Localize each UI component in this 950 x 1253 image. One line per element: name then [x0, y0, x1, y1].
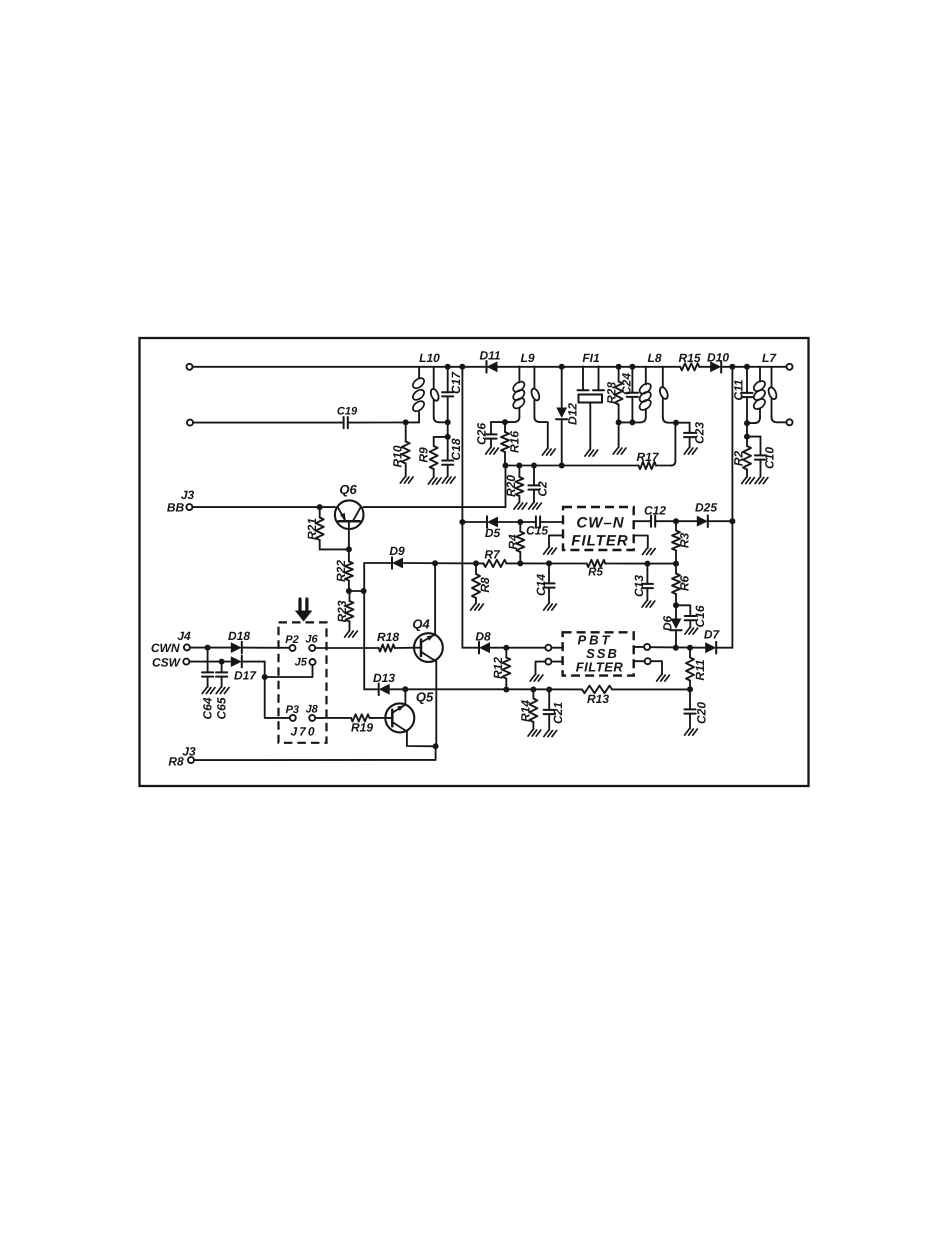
- resistor R10: [391, 422, 410, 476]
- svg-text:C64: C64: [200, 697, 214, 719]
- svg-text:R22: R22: [334, 560, 348, 582]
- svg-text:J8: J8: [306, 704, 319, 716]
- node L8 secondary bottom: [673, 420, 679, 426]
- diode D6: [661, 605, 682, 648]
- svg-text:R18: R18: [377, 630, 399, 644]
- resistor R15: [678, 351, 700, 370]
- resistor R23: [335, 591, 354, 631]
- node C11 top: [744, 364, 750, 370]
- node R22 bottom: [346, 588, 352, 594]
- wire second input: [193, 422, 342, 424]
- node R16 bottom: [503, 463, 509, 469]
- resistor R3: [672, 521, 692, 563]
- wire D5 line: [462, 521, 533, 523]
- diode D25: [695, 501, 717, 528]
- svg-text:R28: R28: [605, 382, 619, 404]
- wire J6 to R18: [315, 647, 379, 649]
- filter box PBT SSB: [563, 632, 634, 675]
- node R3 bottom: [673, 561, 679, 567]
- svg-text:L10: L10: [419, 351, 440, 365]
- wire R17 line: [506, 423, 676, 466]
- capacitor C13: [632, 564, 653, 601]
- output terminal top-right: [787, 364, 793, 370]
- wire Q4 emitter down: [435, 662, 437, 747]
- svg-text:R14: R14: [519, 700, 533, 722]
- transistor Q6: [335, 482, 364, 529]
- capacitor C18: [442, 437, 463, 477]
- svg-text:R9: R9: [417, 447, 431, 463]
- wire Q4 collector vertical: [434, 563, 436, 634]
- wire CWN line: [190, 647, 290, 649]
- node C24 bottom: [619, 419, 636, 425]
- node R6 bottom: [673, 602, 679, 608]
- ground C26: [486, 448, 499, 454]
- svg-text:D5: D5: [485, 526, 501, 540]
- pin P3: [286, 704, 299, 721]
- filter box CW-N: [563, 507, 634, 550]
- capacitor C65: [214, 662, 228, 720]
- svg-text:C19: C19: [337, 406, 358, 418]
- pin J6: [305, 634, 318, 652]
- svg-text:R3: R3: [678, 533, 692, 549]
- resistor R6: [672, 564, 692, 606]
- capacitor C19: [337, 406, 358, 429]
- svg-text:C14: C14: [534, 574, 548, 596]
- ground R14: [528, 730, 541, 736]
- node R21 top: [317, 504, 323, 510]
- resistor R18: [377, 630, 414, 652]
- diode D5: [485, 516, 501, 540]
- capacitor C12: [644, 504, 676, 527]
- node D10 out: [729, 364, 735, 370]
- svg-text:C11: C11: [732, 379, 746, 400]
- ground R20: [514, 503, 527, 509]
- pin PBT out upper: [644, 644, 705, 650]
- wire R22 to vertical link: [349, 588, 367, 594]
- node R10 junction: [403, 419, 409, 425]
- wire C12 to D25: [676, 520, 732, 522]
- node R28 bottom: [616, 419, 622, 447]
- svg-text:BB: BB: [167, 501, 185, 515]
- inductor L8 primary: [632, 351, 661, 422]
- pointer arrow: [295, 599, 313, 622]
- svg-text:R16: R16: [508, 431, 522, 453]
- svg-text:CWN: CWN: [151, 641, 180, 655]
- diode D9: [389, 544, 405, 569]
- capacitor C16: [676, 605, 707, 627]
- terminal J3 R8: [168, 745, 196, 769]
- ground C21: [544, 731, 557, 737]
- wire J3 R8 line: [194, 746, 436, 760]
- svg-text:C23: C23: [693, 422, 707, 444]
- input terminal top-left: [187, 364, 193, 370]
- diode D11: [479, 349, 500, 373]
- resistor R9: [417, 437, 448, 478]
- diode D10: [707, 351, 729, 373]
- inductor L10 primary: [411, 351, 440, 422]
- svg-text:Q5: Q5: [416, 690, 434, 705]
- input terminal 2 left: [187, 420, 193, 426]
- wire D13 line: [364, 688, 690, 690]
- resistor R11: [686, 648, 707, 690]
- diode D13: [373, 671, 395, 695]
- node R12 top: [503, 645, 509, 651]
- wire D9 line: [364, 562, 476, 564]
- svg-text:L9: L9: [520, 351, 534, 365]
- pin J8: [306, 704, 319, 721]
- wire CW-N lower-left stub: [549, 535, 563, 547]
- svg-text:P3: P3: [286, 704, 299, 716]
- pin PBT in lower: [545, 659, 563, 665]
- capacitor C26: [475, 422, 506, 447]
- node R12 bottom: [503, 687, 509, 693]
- svg-text:J3: J3: [182, 745, 196, 759]
- ground C18: [442, 477, 455, 483]
- node C14 top: [546, 560, 552, 566]
- ground CW-N lower-right: [642, 549, 655, 555]
- wire Q5 collector: [404, 689, 406, 704]
- svg-text:C26: C26: [475, 423, 489, 445]
- relay box J70: [279, 622, 327, 742]
- node R4 bottom: [517, 560, 523, 566]
- inductor L9 secondary: [530, 366, 548, 448]
- svg-text:R10: R10: [391, 445, 405, 467]
- svg-text:R12: R12: [491, 657, 505, 679]
- ground C65: [216, 688, 229, 694]
- inductor L7 secondary: [767, 367, 786, 423]
- wire CW-N lower-right stub: [634, 536, 648, 549]
- pin P2: [285, 634, 298, 651]
- ground C2: [529, 503, 542, 509]
- svg-text:D13: D13: [373, 671, 395, 685]
- svg-text:D18: D18: [228, 629, 250, 643]
- svg-text:CW–N: CW–N: [576, 515, 624, 532]
- node D12 top: [559, 364, 565, 370]
- transistor Q4: [412, 617, 442, 662]
- svg-text:C16: C16: [693, 605, 707, 627]
- node C13 top: [644, 561, 650, 567]
- svg-text:C2: C2: [536, 481, 550, 497]
- node R11 bottom: [687, 686, 693, 692]
- wire Q5 emitter: [407, 732, 436, 747]
- wire BB line: [192, 506, 335, 508]
- capacitor C10: [747, 437, 777, 477]
- svg-text:Q4: Q4: [412, 617, 430, 632]
- svg-text:R8: R8: [168, 755, 184, 769]
- svg-text:R4: R4: [506, 534, 520, 550]
- node R8 top: [473, 560, 479, 566]
- capacitor C23: [676, 422, 707, 448]
- node Q5 collector junction: [402, 686, 408, 692]
- pin J5: [295, 657, 316, 669]
- svg-text:C15: C15: [526, 524, 548, 538]
- svg-text:J70: J70: [290, 725, 316, 739]
- resistor R14: [519, 690, 538, 730]
- terminal J4 CWN: [151, 629, 191, 655]
- node C12 out: [673, 518, 679, 524]
- terminal J3 BB: [167, 488, 195, 515]
- capacitor C2: [528, 466, 549, 503]
- svg-text:C10: C10: [763, 447, 777, 469]
- svg-text:R15: R15: [678, 351, 700, 365]
- wire J5 to junction: [265, 665, 313, 677]
- capacitor C11: [732, 367, 753, 423]
- ground C16: [685, 628, 698, 634]
- svg-text:R23: R23: [335, 600, 349, 622]
- ground C10: [755, 478, 768, 484]
- wire D8 line: [462, 647, 545, 649]
- capacitor C14: [534, 563, 555, 603]
- node R21 base junction: [346, 546, 352, 552]
- svg-text:C18: C18: [449, 438, 463, 460]
- svg-text:R2: R2: [732, 451, 746, 467]
- capacitor C15: [526, 516, 563, 537]
- svg-text:C17: C17: [449, 371, 463, 394]
- resistor R17: [636, 450, 659, 469]
- wire C19 to L10: [350, 421, 419, 423]
- transistor Q5: [385, 690, 434, 733]
- crystal filter FI1: [578, 351, 605, 450]
- resistor R28: [605, 367, 623, 423]
- svg-text:C12: C12: [644, 504, 666, 518]
- resistor R8: [472, 563, 492, 603]
- ground FI1: [585, 450, 598, 456]
- svg-text:FI1: FI1: [582, 351, 600, 365]
- svg-text:R5: R5: [588, 567, 603, 579]
- resistor R2: [732, 437, 752, 477]
- node D12 bottom: [559, 463, 565, 469]
- wire vertical link D9-D13: [363, 563, 365, 689]
- capacitor C17: [442, 364, 463, 423]
- diode D8: [475, 630, 491, 654]
- ground PBT lower-right: [657, 675, 670, 681]
- terminal J4 CSW: [152, 656, 189, 670]
- svg-text:D12: D12: [566, 403, 580, 425]
- ground R9: [428, 478, 441, 484]
- node L9 primary bottom: [502, 419, 508, 425]
- wire R21 to base: [320, 548, 349, 550]
- wire R16-node to Q6 collector: [364, 466, 506, 508]
- svg-text:D8: D8: [475, 630, 491, 644]
- border frame: [140, 338, 809, 786]
- ground CW-N lower-left: [544, 548, 557, 554]
- diode D17: [231, 656, 258, 683]
- ground C13: [642, 601, 655, 607]
- svg-text:C21: C21: [551, 702, 565, 724]
- ground R23: [345, 631, 358, 637]
- diode D12: [556, 367, 579, 466]
- svg-text:R17: R17: [636, 450, 659, 464]
- node R4 top: [517, 519, 523, 525]
- capacitor C20: [684, 689, 708, 728]
- svg-text:FILTER: FILTER: [571, 533, 628, 550]
- wire R5 segment: [520, 562, 586, 564]
- ground C23: [684, 448, 697, 454]
- svg-text:R13: R13: [587, 692, 609, 706]
- node D6 bottom: [673, 645, 679, 651]
- capacitor C21: [544, 690, 565, 731]
- svg-text:R19: R19: [351, 721, 373, 735]
- ground PBT lower-left: [530, 675, 543, 681]
- node C11 bottom: [744, 420, 750, 440]
- svg-text:Q6: Q6: [339, 482, 357, 497]
- node D25 out: [729, 518, 735, 524]
- wire vertical bus: [461, 367, 463, 648]
- resistor R21: [305, 507, 324, 549]
- svg-text:C20: C20: [695, 702, 709, 724]
- diode D18: [228, 629, 250, 653]
- ground R8: [471, 604, 484, 610]
- wire PBT lower-left stub: [536, 662, 546, 675]
- wire CSW line: [189, 661, 264, 663]
- ground R28: [613, 448, 626, 454]
- resistor R20: [504, 466, 523, 503]
- svg-text:L7: L7: [762, 351, 777, 365]
- svg-text:C24: C24: [620, 373, 634, 395]
- wire CW-N output: [634, 520, 649, 522]
- node C2 top: [531, 463, 537, 469]
- svg-text:FILTER: FILTER: [576, 660, 624, 675]
- resistor R22: [334, 560, 353, 582]
- svg-text:R8: R8: [478, 577, 492, 593]
- resistor R12: [491, 648, 510, 690]
- ground R10: [400, 477, 413, 483]
- ground C20: [685, 729, 698, 735]
- svg-text:D6: D6: [661, 616, 675, 632]
- resistor R16: [501, 422, 522, 465]
- ground R2: [742, 478, 755, 484]
- node C21 top: [546, 687, 552, 693]
- svg-text:D17: D17: [234, 669, 257, 683]
- node J5 wire junction: [262, 674, 268, 680]
- node C65 top: [219, 659, 225, 665]
- svg-text:R21: R21: [305, 518, 319, 540]
- capacitor C24: [620, 367, 639, 423]
- output terminal right lower: [787, 419, 793, 425]
- inductor L7 primary: [747, 351, 777, 423]
- wire D17 down to P3: [265, 662, 290, 718]
- node C24 top: [629, 364, 635, 370]
- ground C14: [544, 604, 557, 610]
- capacitor C64: [200, 648, 214, 720]
- svg-text:L8: L8: [647, 351, 661, 365]
- svg-text:R6: R6: [678, 576, 692, 592]
- ground L9 secondary: [542, 449, 555, 455]
- diode D7: [704, 628, 733, 654]
- node R14 top: [530, 687, 536, 693]
- svg-text:P2: P2: [285, 634, 298, 646]
- node D5 line left: [459, 519, 465, 525]
- node Q4 collector top: [432, 560, 438, 566]
- resistor R7: [476, 548, 520, 568]
- wire right vertical bus: [731, 367, 733, 648]
- node Q5 emitter junction: [433, 743, 439, 749]
- svg-text:J6: J6: [305, 634, 318, 646]
- svg-text:D9: D9: [389, 544, 405, 558]
- svg-text:J5: J5: [295, 657, 308, 669]
- wire Q6 base stem: [348, 521, 350, 591]
- svg-text:R7: R7: [484, 548, 501, 562]
- inductor L9 primary: [508, 351, 535, 422]
- svg-text:D25: D25: [695, 501, 717, 515]
- node C17 bottom: [445, 419, 451, 440]
- node top rail to vertical bus: [459, 364, 465, 370]
- inductor L10 secondary: [429, 367, 444, 423]
- pin PBT in upper: [545, 645, 563, 651]
- wire PBT out lower: [634, 660, 645, 662]
- resistor R5: [587, 560, 676, 579]
- resistor R4: [506, 522, 524, 563]
- svg-text:R11: R11: [693, 659, 707, 680]
- svg-text:D7: D7: [704, 628, 721, 642]
- svg-text:D11: D11: [479, 349, 500, 363]
- svg-text:C13: C13: [632, 575, 646, 597]
- node R11 top: [687, 645, 693, 651]
- resistor R19: [315, 714, 385, 734]
- inductor L8 secondary: [658, 367, 676, 423]
- node R28 top: [616, 364, 622, 370]
- node R20 top: [516, 463, 522, 469]
- wire PBT out upper: [634, 646, 644, 648]
- svg-text:CSW: CSW: [152, 656, 182, 670]
- node C64 top: [205, 645, 211, 651]
- resistor R13: [582, 686, 612, 706]
- pin PBT out lower: [645, 658, 662, 674]
- svg-text:D10: D10: [707, 351, 729, 365]
- ground C64: [202, 688, 215, 694]
- wire top rail: [193, 366, 787, 368]
- svg-text:C65: C65: [214, 697, 228, 719]
